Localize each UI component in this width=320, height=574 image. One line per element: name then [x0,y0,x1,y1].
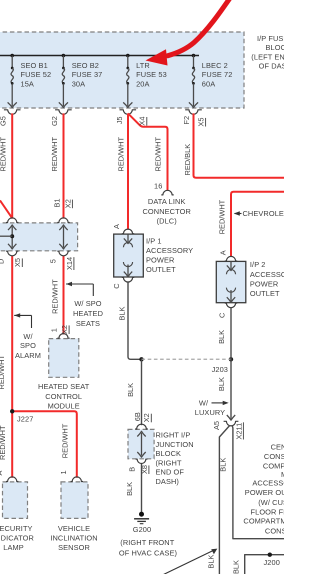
svg-text:BLK: BLK [231,560,240,574]
svg-text:I/P FUSE: I/P FUSE [257,34,284,43]
svg-text:(DLC): (DLC) [157,217,177,226]
svg-text:DATA LINK: DATA LINK [148,197,186,206]
svg-text:CHEVROLET: CHEVROLET [243,209,285,218]
svg-text:B: B [128,467,137,472]
svg-text:X14: X14 [65,257,74,270]
svg-text:6B: 6B [133,412,142,421]
svg-text:G200: G200 [133,525,151,534]
svg-text:SEO B2: SEO B2 [72,61,99,70]
svg-text:BLOCK: BLOCK [266,43,285,52]
svg-text:BLK: BLK [219,458,228,472]
svg-text:VEHICLE: VEHICLE [58,524,90,533]
svg-text:RED/BLK: RED/BLK [183,144,192,176]
svg-text:RED/WHT: RED/WHT [60,423,69,458]
svg-text:SENSOR: SENSOR [58,543,90,552]
svg-text:CONSOLE): CONSOLE) [265,526,284,535]
svg-text:RED/WHT: RED/WHT [116,137,125,172]
svg-text:SECURITY: SECURITY [0,524,33,533]
svg-text:F2: F2 [182,116,191,125]
svg-text:LBEC 2: LBEC 2 [202,61,228,70]
svg-text:J200: J200 [264,558,280,567]
svg-text:1: 1 [50,328,59,332]
svg-text:C: C [112,283,121,289]
svg-text:BLK: BLK [206,555,215,569]
svg-text:X2: X2 [142,413,151,422]
svg-text:J227: J227 [17,415,33,424]
svg-text:ACCESSORY: ACCESSORY [250,270,284,279]
svg-text:60A: 60A [202,79,215,88]
svg-text:POWER: POWER [146,255,174,264]
svg-text:C: C [218,312,227,318]
svg-text:RED/WHT: RED/WHT [50,279,59,314]
svg-text:A: A [218,250,227,255]
svg-text:CENTER: CENTER [271,443,284,452]
svg-text:ALARM: ALARM [15,351,41,360]
svg-text:W/: W/ [199,399,209,408]
svg-text:D: D [0,259,6,264]
svg-text:BLK: BLK [217,330,226,344]
svg-text:END OF: END OF [156,468,185,477]
svg-text:SEO B1: SEO B1 [21,61,48,70]
svg-text:J5: J5 [115,116,124,124]
svg-text:5: 5 [48,259,57,263]
svg-text:MODULE: MODULE [48,402,80,411]
svg-text:A: A [0,471,4,476]
svg-text:HEATED SEAT: HEATED SEAT [38,382,90,391]
svg-text:BLK: BLK [125,482,134,496]
svg-text:FLOOR FRONT: FLOOR FRONT [251,507,285,516]
svg-text:OUTLET: OUTLET [146,265,176,274]
svg-text:HEATED: HEATED [73,309,103,318]
svg-text:SEATS: SEATS [76,319,100,328]
svg-text:CONTROL: CONTROL [45,392,82,401]
svg-text:COMPARTMENT: COMPARTMENT [243,517,284,526]
svg-text:POWER OUTLET: POWER OUTLET [245,488,284,497]
svg-text:(W/ CUSTOM: (W/ CUSTOM [258,498,284,507]
svg-text:W/ SPO: W/ SPO [74,299,101,308]
svg-text:BLK: BLK [126,383,135,397]
svg-text:RED/WHT: RED/WHT [0,137,8,172]
svg-text:OF DASH): OF DASH) [259,62,284,71]
svg-text:20A: 20A [136,79,149,88]
svg-text:X2: X2 [60,325,69,334]
svg-text:FUSE 53: FUSE 53 [136,70,167,79]
svg-text:(LEFT END: (LEFT END [251,52,284,61]
svg-text:B1: B1 [52,198,61,207]
svg-text:BLK: BLK [217,377,226,391]
svg-text:RED/WHT: RED/WHT [0,425,7,460]
svg-text:DASH): DASH) [156,477,180,486]
svg-text:POWER: POWER [250,279,278,288]
svg-text:RED/WHT: RED/WHT [0,355,6,390]
svg-text:30A: 30A [72,79,85,88]
svg-text:FUSE 37: FUSE 37 [72,70,103,79]
svg-text:ACCESSORY: ACCESSORY [252,479,284,488]
svg-text:J203: J203 [212,365,228,374]
svg-text:G5: G5 [0,116,8,126]
svg-text:LUXURY: LUXURY [195,408,225,417]
svg-text:(RIGHT FRONT: (RIGHT FRONT [120,538,174,547]
svg-text:G2: G2 [50,116,59,126]
svg-text:I/P 2: I/P 2 [250,260,266,269]
svg-text:A5: A5 [212,421,221,430]
svg-text:1: 1 [59,470,68,474]
svg-text:X4: X4 [138,117,147,126]
svg-text:LAMP: LAMP [3,543,24,552]
svg-text:RED/WHT: RED/WHT [153,137,162,172]
svg-text:16: 16 [154,181,162,190]
svg-text:ACCESSORY: ACCESSORY [146,246,193,255]
svg-text:LTR: LTR [136,61,150,70]
svg-text:CONSOLE: CONSOLE [264,452,284,461]
svg-text:(RIGHT: (RIGHT [156,458,182,467]
svg-text:X2: X2 [63,199,72,208]
svg-text:RED/WHT: RED/WHT [217,199,226,234]
svg-text:SPO: SPO [20,341,36,350]
svg-text:BLOCK: BLOCK [156,449,182,458]
svg-text:JUNCTION: JUNCTION [156,440,194,449]
svg-text:BLK: BLK [117,306,126,320]
svg-text:INCLINATION: INCLINATION [50,534,97,543]
svg-text:I/P 1: I/P 1 [146,237,162,246]
svg-text:FUSE 72: FUSE 72 [202,70,233,79]
svg-text:RED/WHT: RED/WHT [50,137,59,172]
svg-text:CONNECTOR: CONNECTOR [142,207,190,216]
svg-text:15A: 15A [21,79,34,88]
svg-text:X211: X211 [234,423,243,440]
svg-text:INDICATOR: INDICATOR [0,534,34,543]
svg-text:X5: X5 [13,258,22,267]
svg-text:X8: X8 [140,465,149,474]
svg-text:OF HVAC CASE): OF HVAC CASE) [119,548,177,557]
svg-text:COMPARTMENT: COMPARTMENT [263,461,284,470]
svg-text:FUSE 52: FUSE 52 [21,70,52,79]
svg-text:X5: X5 [197,117,206,126]
svg-text:RIGHT I/P: RIGHT I/P [156,431,191,440]
svg-text:OUTLET: OUTLET [250,289,280,298]
svg-text:A: A [112,224,121,229]
svg-text:W/: W/ [23,332,33,341]
